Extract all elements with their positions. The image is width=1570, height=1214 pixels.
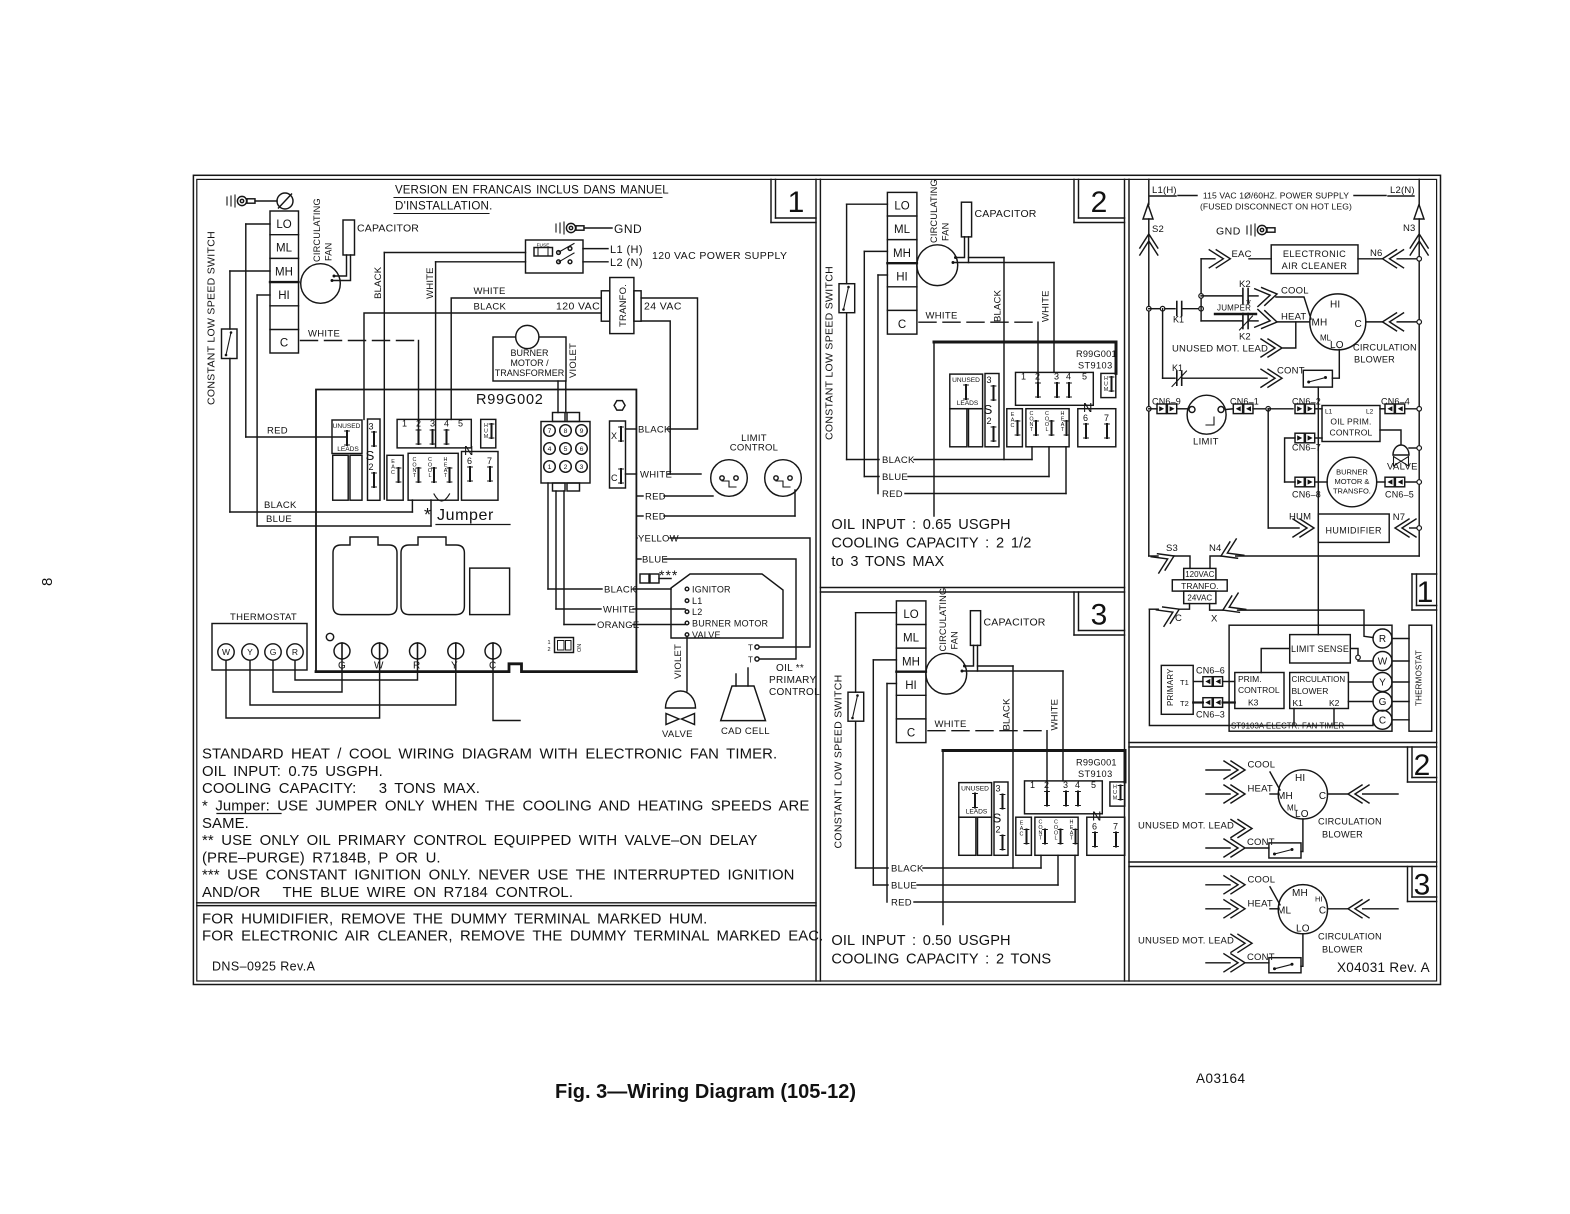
svg-text:Fig. 3—Wiring Diagram (105-12): Fig. 3—Wiring Diagram (105-12) xyxy=(555,1081,856,1103)
svg-text:CN6–7: CN6–7 xyxy=(1292,443,1321,453)
svg-text:CONT: CONT xyxy=(1277,366,1305,377)
svg-text:FAN: FAN xyxy=(941,223,951,241)
svg-text:BLUE: BLUE xyxy=(882,472,908,483)
svg-text:UNUSED: UNUSED xyxy=(952,377,980,384)
svg-text:VALVE: VALVE xyxy=(692,630,721,640)
svg-text:COOL: COOL xyxy=(1248,760,1276,771)
svg-text:3: 3 xyxy=(580,464,584,471)
svg-text:1: 1 xyxy=(548,464,552,471)
svg-text:LO: LO xyxy=(276,219,291,231)
svg-text:RED: RED xyxy=(882,489,903,500)
svg-text:24 VAC: 24 VAC xyxy=(644,301,682,313)
svg-text:CN6–1: CN6–1 xyxy=(1230,397,1259,407)
svg-text:AND/OR THE BLUE WIRE ON R718: AND/OR THE BLUE WIRE ON R7184 CONTROL. xyxy=(202,885,573,901)
svg-text:CIRCULATION: CIRCULATION xyxy=(1318,817,1382,827)
svg-text:LO: LO xyxy=(894,201,909,213)
svg-text:CN6–5: CN6–5 xyxy=(1385,490,1414,500)
svg-text:TRANSFORMER: TRANSFORMER xyxy=(495,368,565,378)
svg-text:COOLING CAPACITY : 2 1/2: COOLING CAPACITY : 2 1/2 xyxy=(831,536,1031,552)
svg-text:T2: T2 xyxy=(1180,699,1189,708)
svg-text:BLOWER: BLOWER xyxy=(1322,944,1363,954)
svg-text:L2 (N): L2 (N) xyxy=(610,257,643,269)
svg-text:S: S xyxy=(984,402,993,417)
svg-text:RED: RED xyxy=(267,426,288,437)
svg-text:1: 1 xyxy=(1417,576,1434,609)
svg-text:X: X xyxy=(1211,614,1218,625)
svg-text:2: 2 xyxy=(547,647,550,653)
svg-text:GND: GND xyxy=(614,222,642,236)
svg-text:HUM: HUM xyxy=(1289,512,1311,523)
svg-text:L1 (H): L1 (H) xyxy=(610,244,643,256)
svg-text:T1: T1 xyxy=(1180,678,1189,687)
svg-text:S2: S2 xyxy=(1152,224,1164,235)
svg-text:A03164: A03164 xyxy=(1196,1071,1246,1086)
svg-text:LIMIT: LIMIT xyxy=(1193,437,1219,448)
svg-text:MH: MH xyxy=(275,266,293,278)
svg-text:WHITE: WHITE xyxy=(603,605,635,616)
svg-text:CN6–2: CN6–2 xyxy=(1292,397,1321,407)
svg-text:RED: RED xyxy=(645,512,666,523)
svg-text:ST9103: ST9103 xyxy=(1078,361,1113,371)
svg-text:X04031 Rev. A: X04031 Rev. A xyxy=(1337,960,1430,975)
svg-text:EAC: EAC xyxy=(391,459,395,476)
svg-text:HEAT: HEAT xyxy=(1248,784,1273,795)
svg-text:*: * xyxy=(1246,296,1251,311)
svg-text:HI: HI xyxy=(1295,773,1305,784)
svg-text:UNUSED MOT. LEAD: UNUSED MOT. LEAD xyxy=(1172,344,1268,355)
svg-text:ELECTRONIC: ELECTRONIC xyxy=(1283,249,1346,259)
svg-text:ML: ML xyxy=(276,243,293,255)
svg-text:Y: Y xyxy=(1379,678,1386,689)
svg-text:7: 7 xyxy=(1104,413,1109,423)
svg-text:MOTOR /: MOTOR / xyxy=(510,358,549,368)
svg-text:CIRCULATION: CIRCULATION xyxy=(1318,931,1382,941)
svg-text:(PRE–PURGE) R7184B, P OR U.: (PRE–PURGE) R7184B, P OR U. xyxy=(202,850,441,866)
svg-text:ML: ML xyxy=(894,224,911,236)
svg-text:BLACK: BLACK xyxy=(882,455,915,466)
svg-text:OIL INPUT : 0.65 USGPH: OIL INPUT : 0.65 USGPH xyxy=(831,517,1010,533)
svg-text:HEAT: HEAT xyxy=(1061,411,1065,433)
svg-text:120 VAC POWER SUPPLY: 120 VAC POWER SUPPLY xyxy=(652,250,787,262)
svg-text:6: 6 xyxy=(1083,413,1088,423)
svg-text:1: 1 xyxy=(547,640,550,646)
svg-text:CIRCULATION: CIRCULATION xyxy=(1292,675,1346,684)
svg-text:MH: MH xyxy=(893,248,911,260)
svg-text:THERMOSTAT: THERMOSTAT xyxy=(230,612,297,623)
svg-text:OIL **: OIL ** xyxy=(776,663,804,674)
svg-text:DNS–0925 Rev.A: DNS–0925 Rev.A xyxy=(212,960,316,974)
svg-text:X: X xyxy=(611,431,617,441)
svg-text:LIMIT SENSE: LIMIT SENSE xyxy=(1291,644,1349,654)
svg-text:HEAT: HEAT xyxy=(1281,312,1306,323)
svg-text:L2(N): L2(N) xyxy=(1390,185,1415,196)
svg-text:HUMIDIFIER: HUMIDIFIER xyxy=(1325,526,1382,536)
svg-text:VALVE: VALVE xyxy=(1387,462,1418,473)
svg-text:6: 6 xyxy=(580,446,584,453)
svg-text:COOL: COOL xyxy=(1281,286,1309,297)
svg-text:MOTOR &: MOTOR & xyxy=(1334,477,1369,486)
svg-text:LEADS: LEADS xyxy=(957,400,979,407)
svg-text:CONSTANT LOW SPEED SWITCH: CONSTANT LOW SPEED SWITCH xyxy=(206,231,218,405)
svg-text:C: C xyxy=(611,473,618,483)
svg-text:***: *** xyxy=(659,567,678,583)
svg-text:CIRCULATION: CIRCULATION xyxy=(1353,343,1417,353)
svg-text:G: G xyxy=(270,647,277,657)
svg-text:COOL: COOL xyxy=(1248,874,1276,885)
svg-text:Jumper: Jumper xyxy=(437,507,494,524)
svg-text:VIOLET: VIOLET xyxy=(568,343,579,378)
svg-text:K1: K1 xyxy=(1173,315,1184,325)
svg-text:K3: K3 xyxy=(1248,698,1259,708)
svg-text:MH: MH xyxy=(1292,888,1308,899)
svg-text:LO: LO xyxy=(1330,340,1344,351)
svg-text:BLUE: BLUE xyxy=(266,514,292,525)
svg-text:OIL PRIM.: OIL PRIM. xyxy=(1330,417,1371,427)
svg-text:HI: HI xyxy=(896,272,908,284)
svg-text:BLACK: BLACK xyxy=(993,289,1004,322)
svg-text:CIRCULATING: CIRCULATING xyxy=(312,198,322,262)
svg-text:TRANSFO.: TRANSFO. xyxy=(1333,487,1371,496)
svg-text:N3: N3 xyxy=(1403,223,1416,234)
svg-text:COOLING CAPACITY: 3 TONS MAX: COOLING CAPACITY: 3 TONS MAX. xyxy=(202,781,480,797)
svg-text:R99G001: R99G001 xyxy=(1076,349,1117,359)
svg-text:ST9103A ELECTR. FAN TIMER: ST9103A ELECTR. FAN TIMER xyxy=(1231,722,1345,731)
svg-text:VALVE: VALVE xyxy=(662,729,693,740)
svg-text:HI: HI xyxy=(278,290,290,302)
svg-text:Y: Y xyxy=(451,661,458,672)
svg-text:L2: L2 xyxy=(1366,409,1374,416)
svg-text:WHITE: WHITE xyxy=(474,286,506,297)
svg-text:HUM: HUM xyxy=(1104,376,1109,393)
svg-text:L2: L2 xyxy=(692,607,702,617)
svg-text:8: 8 xyxy=(39,578,56,586)
svg-text:BLOWER: BLOWER xyxy=(1354,355,1395,365)
svg-text:C: C xyxy=(1355,319,1362,330)
svg-text:MH: MH xyxy=(1277,791,1293,802)
svg-text:EAC: EAC xyxy=(1011,412,1015,429)
svg-text:** USE ONLY OIL PRIMARY CONTRO: ** USE ONLY OIL PRIMARY CONTROL EQUIPPED… xyxy=(202,833,758,849)
svg-text:PRIMARY: PRIMARY xyxy=(1166,668,1175,706)
svg-text:R: R xyxy=(1379,634,1386,645)
svg-text:WHITE: WHITE xyxy=(425,267,436,299)
svg-text:Y: Y xyxy=(247,647,253,657)
svg-text:C: C xyxy=(1379,715,1386,726)
svg-text:TRANFO.: TRANFO. xyxy=(1181,581,1218,591)
svg-text:WHITE: WHITE xyxy=(640,470,672,481)
svg-text:FOR HUMIDIFIER, REMOVE THE DUM: FOR HUMIDIFIER, REMOVE THE DUMMY TERMINA… xyxy=(202,912,707,928)
svg-text:L1: L1 xyxy=(1325,409,1333,416)
svg-text:FOR ELECTRONIC AIR CLEANER, RE: FOR ELECTRONIC AIR CLEANER, REMOVE THE D… xyxy=(202,929,823,945)
svg-text:3: 3 xyxy=(986,375,991,385)
svg-text:C: C xyxy=(1319,791,1326,802)
svg-text:STANDARD HEAT / COOL WIRING DI: STANDARD HEAT / COOL WIRING DIAGRAM WITH… xyxy=(202,747,777,763)
svg-text:HEAT: HEAT xyxy=(1248,898,1273,909)
svg-text:K1: K1 xyxy=(1293,698,1304,708)
svg-text:1: 1 xyxy=(788,186,805,219)
svg-text:W: W xyxy=(222,647,230,657)
svg-text:VIOLET: VIOLET xyxy=(673,644,684,679)
svg-text:BURNER MOTOR: BURNER MOTOR xyxy=(692,619,769,629)
svg-text:CONTROL: CONTROL xyxy=(1238,685,1280,695)
svg-text:3: 3 xyxy=(1091,599,1108,632)
svg-text:9: 9 xyxy=(580,428,584,435)
svg-text:CAD CELL: CAD CELL xyxy=(721,726,770,737)
svg-text:OIL INPUT : 0.50 USGPH: OIL INPUT : 0.50 USGPH xyxy=(831,933,1010,949)
svg-text:R: R xyxy=(413,661,420,672)
svg-text:GND: GND xyxy=(1216,226,1241,238)
svg-text:ORANGE: ORANGE xyxy=(597,620,639,631)
svg-text:3: 3 xyxy=(1414,869,1431,902)
svg-text:* Jumper: USE JUMPER ONLY WHEN: * Jumper: USE JUMPER ONLY WHEN THE COOLI… xyxy=(202,798,809,814)
svg-text:T: T xyxy=(748,656,753,665)
svg-text:UNUSED: UNUSED xyxy=(333,423,361,430)
svg-text:THERMOSTAT: THERMOSTAT xyxy=(1415,650,1424,706)
svg-text:OIL INPUT: 0.75 USGPH.: OIL INPUT: 0.75 USGPH. xyxy=(202,764,383,780)
svg-text:BLOWER: BLOWER xyxy=(1292,686,1329,696)
svg-text:K2: K2 xyxy=(1329,698,1340,708)
svg-text:CAPACITOR: CAPACITOR xyxy=(357,223,419,235)
svg-text:2: 2 xyxy=(986,416,991,426)
svg-text:L1(H): L1(H) xyxy=(1152,185,1177,196)
svg-text:BLACK: BLACK xyxy=(373,266,384,299)
svg-text:LEADS: LEADS xyxy=(337,446,359,453)
svg-text:RED: RED xyxy=(645,492,666,503)
svg-text:PRIM.: PRIM. xyxy=(1238,674,1262,684)
svg-text:(FUSED DISCONNECT ON HOT LEG): (FUSED DISCONNECT ON HOT LEG) xyxy=(1200,202,1352,212)
svg-text:C: C xyxy=(280,337,288,349)
svg-text:120 VAC: 120 VAC xyxy=(556,301,600,313)
svg-text:2: 2 xyxy=(1091,186,1108,219)
svg-text:2: 2 xyxy=(1414,749,1431,782)
svg-text:8: 8 xyxy=(564,428,568,435)
svg-text:4: 4 xyxy=(548,446,552,453)
svg-text:CONT: CONT xyxy=(1029,411,1033,433)
svg-text:ML: ML xyxy=(1277,906,1292,917)
svg-text:COOL: COOL xyxy=(1045,411,1049,433)
svg-text:CONTROL: CONTROL xyxy=(769,687,820,698)
svg-text:CN6–8: CN6–8 xyxy=(1292,490,1321,500)
svg-text:R: R xyxy=(292,647,298,657)
svg-text:WHITE: WHITE xyxy=(308,329,340,340)
svg-text:C: C xyxy=(898,319,906,331)
svg-text:L1: L1 xyxy=(692,596,702,606)
svg-text:UNUSED MOT. LEAD: UNUSED MOT. LEAD xyxy=(1138,935,1234,946)
svg-text:6: 6 xyxy=(467,456,472,466)
svg-text:D'INSTALLATION.: D'INSTALLATION. xyxy=(395,200,493,213)
svg-text:CIRCULATING: CIRCULATING xyxy=(929,179,939,243)
svg-text:N4: N4 xyxy=(1209,543,1222,554)
svg-text:COOLING CAPACITY : 2 TONS: COOLING CAPACITY : 2 TONS xyxy=(831,952,1051,968)
svg-text:BLACK: BLACK xyxy=(474,302,507,313)
svg-text:HUM: HUM xyxy=(484,423,489,440)
svg-text:7: 7 xyxy=(548,428,552,435)
svg-text:*: * xyxy=(424,505,431,525)
svg-text:3: 3 xyxy=(368,422,373,432)
svg-text:AIR CLEANER: AIR CLEANER xyxy=(1282,261,1348,271)
svg-text:HI: HI xyxy=(1330,300,1340,311)
svg-text:CONSTANT LOW SPEED SWITCH: CONSTANT LOW SPEED SWITCH xyxy=(824,266,836,440)
svg-text:BLUE: BLUE xyxy=(642,555,668,566)
svg-text:CAPACITOR: CAPACITOR xyxy=(975,208,1037,220)
svg-text:C: C xyxy=(1319,906,1326,917)
svg-text:7: 7 xyxy=(487,456,492,466)
svg-text:C: C xyxy=(1175,613,1182,624)
svg-text:*** USE CONSTANT IGNITION ONLY: *** USE CONSTANT IGNITION ONLY. NEVER US… xyxy=(202,868,795,884)
svg-text:to 3 TONS MAX: to 3 TONS MAX xyxy=(831,554,944,570)
svg-text:CN6–6: CN6–6 xyxy=(1196,666,1225,676)
svg-text:PRIMARY: PRIMARY xyxy=(769,675,817,686)
svg-text:LO: LO xyxy=(1295,809,1309,820)
svg-text:S: S xyxy=(366,448,375,463)
svg-text:ST9103: ST9103 xyxy=(1078,769,1113,779)
svg-text:BURNER: BURNER xyxy=(510,348,549,358)
svg-text:24VAC: 24VAC xyxy=(1187,594,1212,603)
svg-text:N7: N7 xyxy=(1393,512,1406,523)
svg-text:2: 2 xyxy=(564,464,568,471)
svg-text:VERSION EN FRANCAIS INCLUS DAN: VERSION EN FRANCAIS INCLUS DANS MANUEL xyxy=(395,185,669,197)
svg-text:115 VAC 1Ø/60HZ. POWER SUPPLY: 115 VAC 1Ø/60HZ. POWER SUPPLY xyxy=(1203,191,1349,201)
svg-text:CONTROL: CONTROL xyxy=(1330,428,1373,438)
svg-text:G: G xyxy=(1379,697,1387,708)
svg-text:LO: LO xyxy=(1296,924,1310,935)
svg-text:WHITE: WHITE xyxy=(1041,290,1052,322)
svg-text:WHITE: WHITE xyxy=(926,311,958,322)
svg-text:FAN: FAN xyxy=(324,243,334,261)
svg-text:MH: MH xyxy=(1312,318,1328,329)
svg-text:CONTROL: CONTROL xyxy=(730,443,779,454)
svg-text:W: W xyxy=(1378,657,1388,668)
svg-text:T: T xyxy=(748,644,753,653)
svg-text:YELLOW: YELLOW xyxy=(638,534,679,545)
svg-text:BURNER: BURNER xyxy=(1336,468,1368,477)
svg-text:TRANFO.: TRANFO. xyxy=(618,284,629,327)
svg-text:K2: K2 xyxy=(1239,332,1251,343)
svg-text:R99G002: R99G002 xyxy=(476,392,544,408)
svg-text:BLACK: BLACK xyxy=(264,500,297,511)
svg-text:S3: S3 xyxy=(1166,543,1178,554)
svg-text:ON: ON xyxy=(577,644,583,652)
svg-text:120VAC: 120VAC xyxy=(1185,570,1214,579)
svg-text:CN6–3: CN6–3 xyxy=(1196,710,1225,720)
svg-text:SAME.: SAME. xyxy=(202,816,249,832)
svg-text:BLACK: BLACK xyxy=(604,585,637,596)
svg-text:UNUSED MOT. LEAD: UNUSED MOT. LEAD xyxy=(1138,821,1234,832)
svg-text:2: 2 xyxy=(368,462,373,472)
svg-text:N6: N6 xyxy=(1370,248,1383,259)
svg-text:R99G001: R99G001 xyxy=(1076,758,1117,768)
svg-text:5: 5 xyxy=(564,446,568,453)
svg-text:BLOWER: BLOWER xyxy=(1322,830,1363,840)
svg-text:BLACK: BLACK xyxy=(638,425,671,436)
svg-text:HI: HI xyxy=(1315,895,1323,904)
svg-text:IGNITOR: IGNITOR xyxy=(692,585,731,595)
